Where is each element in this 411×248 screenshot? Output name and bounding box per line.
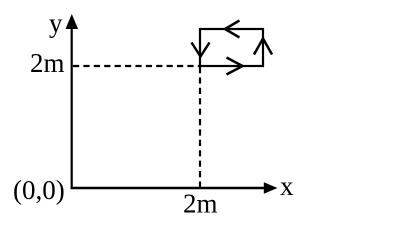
arrow up on right edge <box>254 39 272 55</box>
svg-text:2m: 2m <box>183 189 218 219</box>
y-axis arrowhead <box>66 14 79 29</box>
dashed line horizontal at y=2m <box>73 65 200 67</box>
dashed line vertical at x=2m <box>199 67 201 187</box>
rectangle loop <box>200 29 263 66</box>
y-axis <box>71 27 73 188</box>
svg-text:y: y <box>49 8 63 38</box>
arrow left on top edge <box>225 21 240 38</box>
x-axis <box>71 187 267 189</box>
arrow down on left edge <box>192 43 210 57</box>
x-axis arrowhead <box>264 182 278 193</box>
arrow right on bottom edge <box>227 58 243 75</box>
svg-text:(0,0): (0,0) <box>13 175 65 205</box>
svg-text:2m: 2m <box>30 48 65 78</box>
svg-text:x: x <box>280 171 294 201</box>
